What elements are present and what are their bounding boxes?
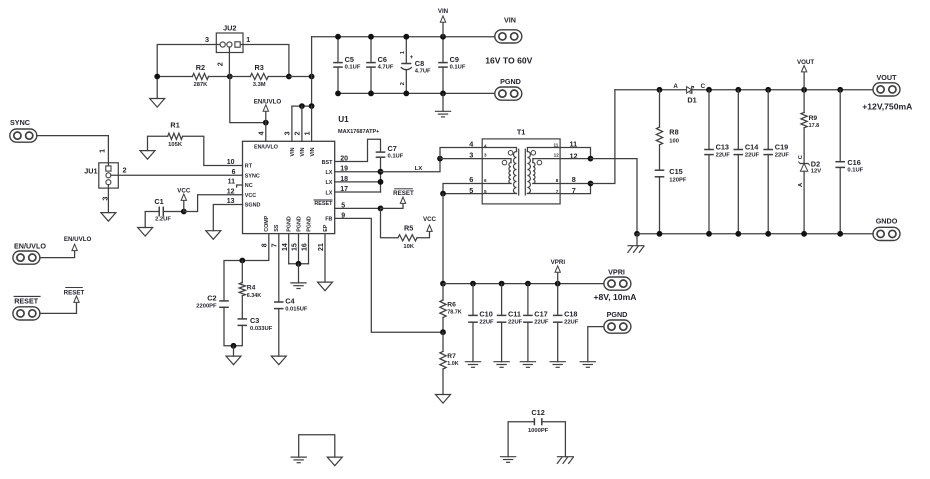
node C10 top [470,281,476,287]
wire GNDO rail [637,233,874,235]
svg-text:22UF: 22UF [508,320,523,326]
svg-text:22UF: 22UF [745,152,760,158]
node C14 bottom [735,231,741,237]
capacitor C7 [376,144,404,172]
svg-text:EP: EP [323,224,329,232]
wire VIN vertical feed [311,37,313,106]
wire JU1 pin2 to SYNC pin [111,174,243,176]
svg-text:JU1: JU1 [84,166,97,175]
svg-text:RESET: RESET [393,190,414,197]
svg-text:C10: C10 [479,309,492,318]
capacitor C19 [763,90,789,234]
U1 pin names inside [245,145,333,232]
svg-text:C2: C2 [207,294,216,303]
capacitor C10 [468,284,494,362]
svg-text:8: 8 [572,175,576,184]
svg-text:11: 11 [228,179,236,186]
svg-text:C17: C17 [534,309,547,318]
svg-text:C8: C8 [415,59,424,68]
svg-text:21: 21 [318,243,325,251]
svg-text:4.7UF: 4.7UF [415,69,431,75]
svg-text:C12: C12 [531,408,544,417]
wire T1 pin8 [560,183,590,185]
node C16 bottom [837,231,843,237]
wire EN/UVLO to pin 4 [265,123,267,142]
wire VIN top rail [312,36,496,38]
svg-text:VIN: VIN [310,147,316,156]
svg-text:14: 14 [282,243,289,251]
svg-text:16V TO 60V: 16V TO 60V [485,55,532,65]
svg-text:2: 2 [400,82,406,85]
svg-text:22UF: 22UF [775,152,790,158]
node R2 left junction [154,74,160,80]
svg-text:120PF: 120PF [669,178,687,184]
node C19 bottom [765,231,771,237]
svg-text:0.1UF: 0.1UF [345,65,361,71]
svg-text:VIN: VIN [438,8,449,15]
node C14 top [735,87,741,93]
node COMP net [239,258,245,264]
svg-text:GNDO: GNDO [876,217,898,226]
wire ground tie bracket [299,435,335,457]
capacitor C3 [234,316,273,346]
resistor R2 [157,63,230,88]
capacitor C5 [333,37,361,94]
diode D1 [673,83,705,105]
svg-text:A: A [673,83,678,90]
svg-text:PGND: PGND [500,77,521,86]
resistor R5 [381,208,430,249]
svg-text:C4: C4 [285,297,295,306]
svg-text:D1: D1 [687,96,696,105]
T1 core [519,149,526,195]
capacitor C17 [523,284,549,362]
svg-text:10K: 10K [403,244,414,250]
svg-text:LX: LX [326,190,333,196]
svg-text:R7: R7 [447,353,456,360]
ground COMP network [226,346,241,365]
node EN/UVLO [263,120,269,126]
svg-text:C13: C13 [716,142,729,151]
net LX wire [381,159,441,172]
svg-text:R3: R3 [255,63,264,72]
svg-text:0.1UF: 0.1UF [450,65,466,71]
connector SYNC [10,118,37,142]
svg-text:1: 1 [304,131,311,135]
svg-text:0.033UF: 0.033UF [250,326,273,332]
ground [150,77,165,108]
net label VPRI [551,259,566,284]
svg-text:VIN: VIN [300,147,306,156]
svg-text:3: 3 [484,152,487,157]
svg-text:T1: T1 [517,127,526,136]
net label RESET at pin5 [381,189,415,209]
net label VCC at R5 [423,216,437,231]
svg-text:0.015UF: 0.015UF [285,307,308,313]
ground tie triangle [327,457,342,466]
svg-text:+12V,750mA: +12V,750mA [862,101,912,111]
capacitor C1 [145,197,184,227]
svg-text:VCC: VCC [177,188,191,195]
capacitor C13 [704,90,730,234]
resistor R9 [801,90,819,164]
T1 pin numbers [469,140,577,195]
net label VCC at C1 [177,188,191,212]
svg-text:LX: LX [415,166,423,172]
svg-text:SYNC: SYNC [10,118,30,127]
node LX pin18 [378,179,384,185]
svg-text:0.1UF: 0.1UF [388,153,404,159]
node GNDO rail left [634,231,640,237]
wire JU2 pin1 to VIN node [240,45,289,77]
capacitor C16 [835,90,863,234]
svg-text:R9: R9 [809,115,818,122]
op-amp U1 MAX17687ATP+ box [243,115,380,233]
svg-text:EN/UVLO: EN/UVLO [14,242,46,251]
wire PGND bottom rail [338,92,496,94]
svg-text:22UF: 22UF [716,152,731,158]
ground JU1 pin3 [101,185,116,222]
node C6 bottom [368,91,374,97]
connector RESET [13,296,41,320]
svg-text:PGND: PGND [296,216,302,232]
ground C17 [520,362,536,368]
T1 primary outer winding 4-5 [482,148,516,194]
svg-text:22UF: 22UF [479,320,494,326]
wire PGND tie [289,263,309,265]
svg-text:C16: C16 [847,158,860,167]
node VIN feed junction [309,74,315,80]
node VCC-C1 [181,209,187,215]
ground R1 [140,151,155,160]
svg-text:SS: SS [274,224,280,232]
svg-text:VPRI: VPRI [608,267,625,276]
wire T1 pin12 [560,158,590,160]
label 16V TO 60V [485,55,532,65]
svg-text:6.34K: 6.34K [247,293,261,299]
connector VOUT [873,73,900,96]
svg-text:C14: C14 [745,142,759,151]
capacitor C6 [366,37,394,94]
node C18 top [555,281,561,287]
svg-text:12: 12 [554,152,560,157]
resistor R4 [239,261,261,319]
svg-text:1: 1 [246,35,250,44]
svg-text:R4: R4 [247,284,256,291]
node T1 pin7-8 [588,181,594,187]
svg-text:R8: R8 [669,128,678,137]
svg-text:1000PF: 1000PF [528,428,549,434]
ground C18 [550,362,566,368]
net label VOUT arrow [797,59,814,90]
svg-text:VPRI: VPRI [551,259,566,266]
wire VIN pin3 drop [291,106,293,141]
ground C1 [138,228,153,237]
net label VIN [438,8,449,37]
node C8 bottom [403,91,409,97]
resistor R3 [230,63,289,88]
wire PGND pin14 [288,234,290,264]
node C5 bottom [335,91,341,97]
connector VIN [495,15,522,43]
svg-text:SYNC: SYNC [245,173,260,179]
node C11 top [499,281,505,287]
svg-text:7: 7 [272,243,279,247]
svg-text:D2: D2 [811,159,820,168]
node C8 top [403,34,409,40]
resistor R6 [440,284,462,333]
svg-text:C7: C7 [388,144,397,153]
svg-text:C6: C6 [378,55,387,64]
connector GNDO [873,217,900,241]
T1 secondary inner winding 12-8 [533,159,560,184]
node C15 bottom [657,231,663,237]
svg-text:RT: RT [245,164,253,170]
svg-text:EN/UVLO: EN/UVLO [254,145,278,151]
wire secondary to GNDO [591,159,638,234]
svg-text:0.1UF: 0.1UF [847,167,863,173]
svg-text:1: 1 [98,149,107,153]
net label EN/UVLO left [40,236,92,258]
svg-text:3.3M: 3.3M [253,82,266,88]
svg-text:2: 2 [295,131,302,135]
ground C11 [493,362,509,368]
capacitor C2 [196,294,233,346]
node C19 top [765,87,771,93]
wire T1 pin7 [560,184,590,194]
T1 secondary outer winding 11-7 [527,148,560,194]
wire JU2 pin3 to R2 node [157,45,220,77]
svg-text:287K: 287K [193,82,208,88]
net label RESET left [40,288,85,314]
svg-text:LX: LX [326,170,333,176]
resistor R8 [656,90,679,170]
jumper JU2 [205,23,250,66]
wire LX pin19 [335,171,381,173]
svg-text:RESET: RESET [14,297,39,306]
svg-text:22UF: 22UF [534,320,549,326]
capacitor C11 [497,284,523,362]
capacitor C15 [655,167,687,234]
svg-text:C5: C5 [345,55,354,64]
node VIN pin2 [299,103,305,109]
svg-text:2: 2 [123,165,127,174]
svg-text:VCC: VCC [423,216,437,223]
ground PGND pins [290,264,306,289]
svg-text:105K: 105K [168,142,183,148]
svg-text:SGND: SGND [245,203,261,209]
svg-text:5: 5 [484,189,487,194]
wire EN/UVLO divider tap [230,77,266,123]
ground R7 [436,395,451,404]
node R3 right junction [286,74,292,80]
connector PGND secondary [604,310,631,333]
label +12V 750mA [862,101,912,111]
capacitor C9 [438,37,466,94]
node D2 bottom [801,231,807,237]
node LX pin19 [378,169,384,175]
svg-text:2.2UF: 2.2UF [155,217,171,223]
ground SGND pin13 [206,205,243,240]
svg-text:MAX17687ATP+: MAX17687ATP+ [338,129,379,135]
capacitor C12 [508,408,565,457]
wire VPRI rail [443,283,603,285]
node C16 top [837,87,843,93]
svg-text:C3: C3 [250,316,259,325]
wire JU2 pin2 down [228,47,230,76]
ground input rail [435,93,451,117]
wire VCC pin 12 [184,195,243,212]
label +8V 10mA [594,292,637,302]
node C13 bottom [706,231,712,237]
wire T1 pin6 [443,184,482,194]
capacitor C14 [734,90,760,234]
wire PGND pin16 [308,234,310,264]
wire RESET pin5 [335,207,381,209]
node C2-C3 gnd [231,343,237,349]
wire T1 pin11 [560,148,590,159]
svg-text:4: 4 [258,131,265,135]
svg-text:R2: R2 [196,63,205,72]
svg-text:100: 100 [669,138,679,144]
ground PGND connector [580,327,604,368]
svg-text:PGND: PGND [287,216,293,232]
svg-text:PGND: PGND [607,310,628,319]
svg-text:C18: C18 [564,309,577,318]
node T1 pin3-4 [437,156,443,162]
wire primary return to VPRI rail [442,194,444,284]
node FB divider [440,329,446,335]
svg-text:LX: LX [326,180,333,186]
node R8 top [657,87,663,93]
svg-text:VIN: VIN [290,147,296,156]
svg-text:RESET: RESET [64,290,85,297]
svg-text:6: 6 [469,175,473,184]
wire T1 pin3 [440,158,482,160]
wire FB [335,218,443,332]
wire T1 pin5 [443,193,482,195]
net label EN/UVLO [254,98,282,122]
resistor R7 [440,332,459,394]
connector PGND input [495,77,522,100]
node VIN pin1 [309,103,315,109]
node R2-R3 junction [227,74,233,80]
svg-text:11: 11 [553,143,558,148]
node C13 top [706,87,712,93]
svg-text:R1: R1 [170,121,179,130]
wire T1 pin4 [440,148,482,159]
wire LX pin18 [335,181,381,183]
transformer T1 box [482,127,560,204]
wire PGND pin15 [298,234,300,264]
svg-text:2200PF: 2200PF [196,303,217,309]
wire VIN pins jog [292,105,312,107]
svg-text:7: 7 [556,189,559,194]
svg-text:22UF: 22UF [564,320,579,326]
connector EN/UVLO [13,242,46,265]
svg-text:U1: U1 [338,115,349,124]
wire R3 to VIN feed [289,76,312,78]
connector VPRI [604,267,631,290]
svg-text:12V: 12V [811,169,821,175]
svg-text:VOUT: VOUT [877,73,898,82]
svg-text:C11: C11 [508,309,521,318]
svg-text:JU2: JU2 [223,23,236,32]
node C6 top [368,34,374,40]
svg-text:BST: BST [322,160,333,166]
node C9 bottom [440,91,446,97]
wire VIN pin2 drop [301,106,303,141]
zener diode D2 [798,154,821,234]
wire SYNC to JU1 pin1 [37,136,109,166]
node R9 top [801,87,807,93]
node C5 top [335,34,341,40]
wire VIN pin1 drop [311,106,313,141]
U1 NC stub [237,185,243,187]
svg-text:3: 3 [285,131,292,135]
resistor R1 [148,121,243,166]
node PGND tie [296,261,302,267]
svg-text:C19: C19 [775,142,788,151]
ground chassis T1 [628,234,645,253]
svg-text:16: 16 [302,243,309,251]
T1 primary inner winding 3-6 [482,159,511,184]
svg-text:VCC: VCC [245,193,256,199]
svg-text:2: 2 [216,62,225,66]
ground EP pin21 [318,234,333,291]
wire secondary to VOUT rail [591,90,615,184]
svg-text:VIN: VIN [504,15,516,24]
ground C12 right chassis [557,457,574,464]
node T1 pin5-6 [440,191,446,197]
svg-text:3: 3 [205,35,209,44]
svg-text:C1: C1 [154,197,163,206]
svg-text:+8V, 10mA: +8V, 10mA [594,292,637,302]
node RESET [378,206,384,212]
wire BST [335,139,381,161]
node C9 top [440,34,446,40]
ground C10 [465,362,481,368]
svg-text:1.0K: 1.0K [447,361,458,367]
wire VOUT rail [615,89,874,91]
node T1 pin11-12 [588,156,594,162]
svg-text:17.8: 17.8 [809,123,820,129]
capacitor C4 [274,234,308,357]
ground C12 left [500,457,516,463]
U1 pin numbers [227,131,348,251]
node VPRI rail left [440,281,446,287]
svg-text:RESET: RESET [314,201,333,207]
svg-text:C15: C15 [669,167,682,176]
svg-text:15: 15 [292,243,299,251]
svg-text:NC: NC [245,183,253,189]
capacitor C8 polarized [400,37,431,94]
jumper JU1 [84,149,126,201]
svg-text:6: 6 [484,178,487,183]
svg-text:C: C [701,83,706,90]
svg-text:8: 8 [262,243,269,247]
node C17 top [525,281,531,287]
ground C4 [271,356,286,365]
svg-text:EN/UVLO: EN/UVLO [254,98,282,105]
svg-text:FB: FB [325,217,332,223]
svg-text:VOUT: VOUT [797,59,814,66]
svg-text:EN/UVLO: EN/UVLO [64,236,92,243]
wire LX tie vertical [380,172,382,192]
svg-text:4.7UF: 4.7UF [378,65,394,71]
ground tie bars [291,457,307,463]
svg-text:4: 4 [484,144,487,149]
